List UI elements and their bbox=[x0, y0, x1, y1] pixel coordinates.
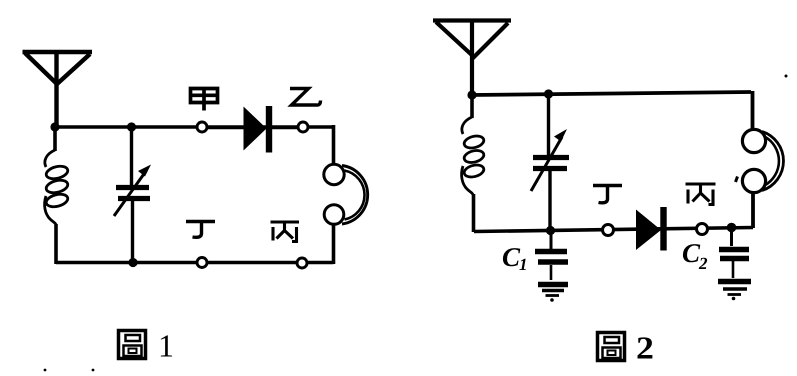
label 丙 (circuit 2) bbox=[686, 184, 716, 205]
variable capacitor VC plates (circuit 2) bbox=[533, 155, 569, 160]
ground symbol (below C1) bbox=[538, 282, 568, 287]
wire: variable capacitor branch upper (circuit 2) bbox=[547, 94, 550, 156]
node 乙 terminal circle (circuit 1) bbox=[298, 122, 308, 132]
node 甲 terminal circle (circuit 1) bbox=[197, 122, 207, 132]
capacitor C1 stub (circuit 2) bbox=[550, 232, 553, 249]
diode D (circuit 1): cathode bar bbox=[266, 106, 272, 153]
earphone upper cup (circuit 2) bbox=[742, 129, 765, 152]
junction dot (VC top, circuit 1) bbox=[127, 122, 136, 131]
junction dot (VC top, circuit 2) bbox=[544, 89, 553, 98]
caption 圖 (figure 1 box glyph) bbox=[119, 331, 146, 359]
wire: top horizontal (circuit 2) bbox=[471, 92, 751, 95]
wire: bottom horizontal (circuit 2) bbox=[474, 228, 753, 232]
node 丁 terminal circle (circuit 1) bbox=[197, 258, 207, 268]
antenna (circuit 1) bbox=[23, 51, 93, 127]
capacitor C1 lower stub (circuit 2) bbox=[550, 265, 553, 280]
variable capacitor VC1 plates (circuit 1) bbox=[116, 185, 149, 190]
caption numeral 1 (figure 1) bbox=[161, 335, 172, 356]
label 丙 (circuit 1, lower) bbox=[271, 222, 300, 242]
wire: bottom horizontal (circuit 1) bbox=[56, 261, 334, 265]
capacitor C1 plates (circuit 2) bbox=[535, 249, 567, 254]
junction dot (antenna, circuit 2) bbox=[467, 90, 476, 99]
earphone headband arcs (circuit 2) bbox=[762, 132, 783, 191]
ground symbol (below C2) bbox=[718, 279, 751, 284]
capacitor C2 stub (circuit 2) bbox=[730, 229, 733, 246]
wire: left vertical top segment (circuit 2) bbox=[470, 95, 474, 118]
label 丁 (circuit 1, lower) bbox=[186, 222, 215, 238]
capacitor C2 lower stub (circuit 2) bbox=[732, 261, 735, 278]
earphone lower cup (circuit 1) bbox=[324, 205, 344, 225]
inductor L (circuit 2 coil) bbox=[462, 117, 485, 195]
stray ink speck (bottom) bbox=[92, 369, 95, 372]
wire: left vertical bottom segment (circuit 1) bbox=[54, 224, 58, 264]
junction dot (VC bottom / C1 tap, circuit 2) bbox=[546, 226, 555, 235]
wire: right vertical upper (circuit 1) bbox=[332, 125, 336, 164]
label C2 (circuit 2) bbox=[683, 244, 700, 262]
junction dot (VC bottom, circuit 1) bbox=[128, 258, 137, 267]
wire: top horizontal (circuit 1) bbox=[55, 125, 334, 129]
earphone lower cup (circuit 2) bbox=[742, 169, 765, 192]
wire: right vertical lower (circuit 1) bbox=[332, 225, 336, 264]
node 丙 terminal circle (circuit 1) bbox=[297, 258, 307, 268]
wire: right vertical upper (circuit 2) bbox=[751, 91, 755, 129]
earphone headband arcs (circuit 1) bbox=[342, 166, 368, 225]
wire: right vertical lower (circuit 2) bbox=[751, 194, 755, 229]
diode D (circuit 1): anode wire bbox=[208, 126, 245, 129]
junction dot (antenna / top-left, circuit 1) bbox=[50, 122, 59, 131]
label 乙 (circuit 1) bbox=[290, 89, 321, 106]
node 丁 terminal circle (circuit 2) bbox=[603, 225, 614, 236]
diode D (circuit 2): cathode bar bbox=[660, 207, 666, 251]
inductor L (circuit 1 coil) bbox=[45, 150, 69, 225]
stray ink dot (top right) bbox=[785, 75, 788, 78]
wire: left vertical top segment (circuit 1) bbox=[53, 127, 57, 151]
stray ink speck (bottom left) bbox=[44, 369, 47, 372]
wire: variable capacitor branch lower (circuit 2) bbox=[548, 169, 551, 231]
wire: left vertical bottom segment (circuit 2) bbox=[472, 194, 476, 232]
label 甲 (circuit 1) bbox=[191, 88, 218, 111]
diode D (circuit 1): cathode wire bbox=[272, 126, 298, 129]
earphone upper cup (circuit 1) bbox=[324, 164, 344, 184]
variable capacitor VC arrow (circuit 2) bbox=[531, 137, 562, 191]
diode D (circuit 2): triangle bbox=[636, 210, 661, 251]
caption 圖 (figure 2 box glyph) bbox=[598, 333, 625, 361]
apostrophe tick (left of earphone, circuit 2) bbox=[736, 177, 738, 183]
node 丙 terminal circle (circuit 2) bbox=[697, 224, 708, 235]
capacitor C2 plates (circuit 2) bbox=[719, 247, 749, 253]
diode D (circuit 1): triangle bbox=[244, 107, 267, 151]
antenna (circuit 2) bbox=[433, 19, 511, 97]
caption numeral 2 (figure 2) bbox=[638, 337, 653, 358]
wire: variable capacitor branch upper (circuit 1) bbox=[130, 127, 133, 186]
variable capacitor VC1 arrow (circuit 1) bbox=[114, 171, 146, 216]
wire: variable capacitor branch lower (circuit 1) bbox=[131, 198, 134, 263]
label 丁 (circuit 2) bbox=[593, 186, 622, 203]
junction dot (C2 tap, circuit 2) bbox=[727, 223, 737, 233]
label C1 (circuit 2) bbox=[503, 248, 520, 266]
